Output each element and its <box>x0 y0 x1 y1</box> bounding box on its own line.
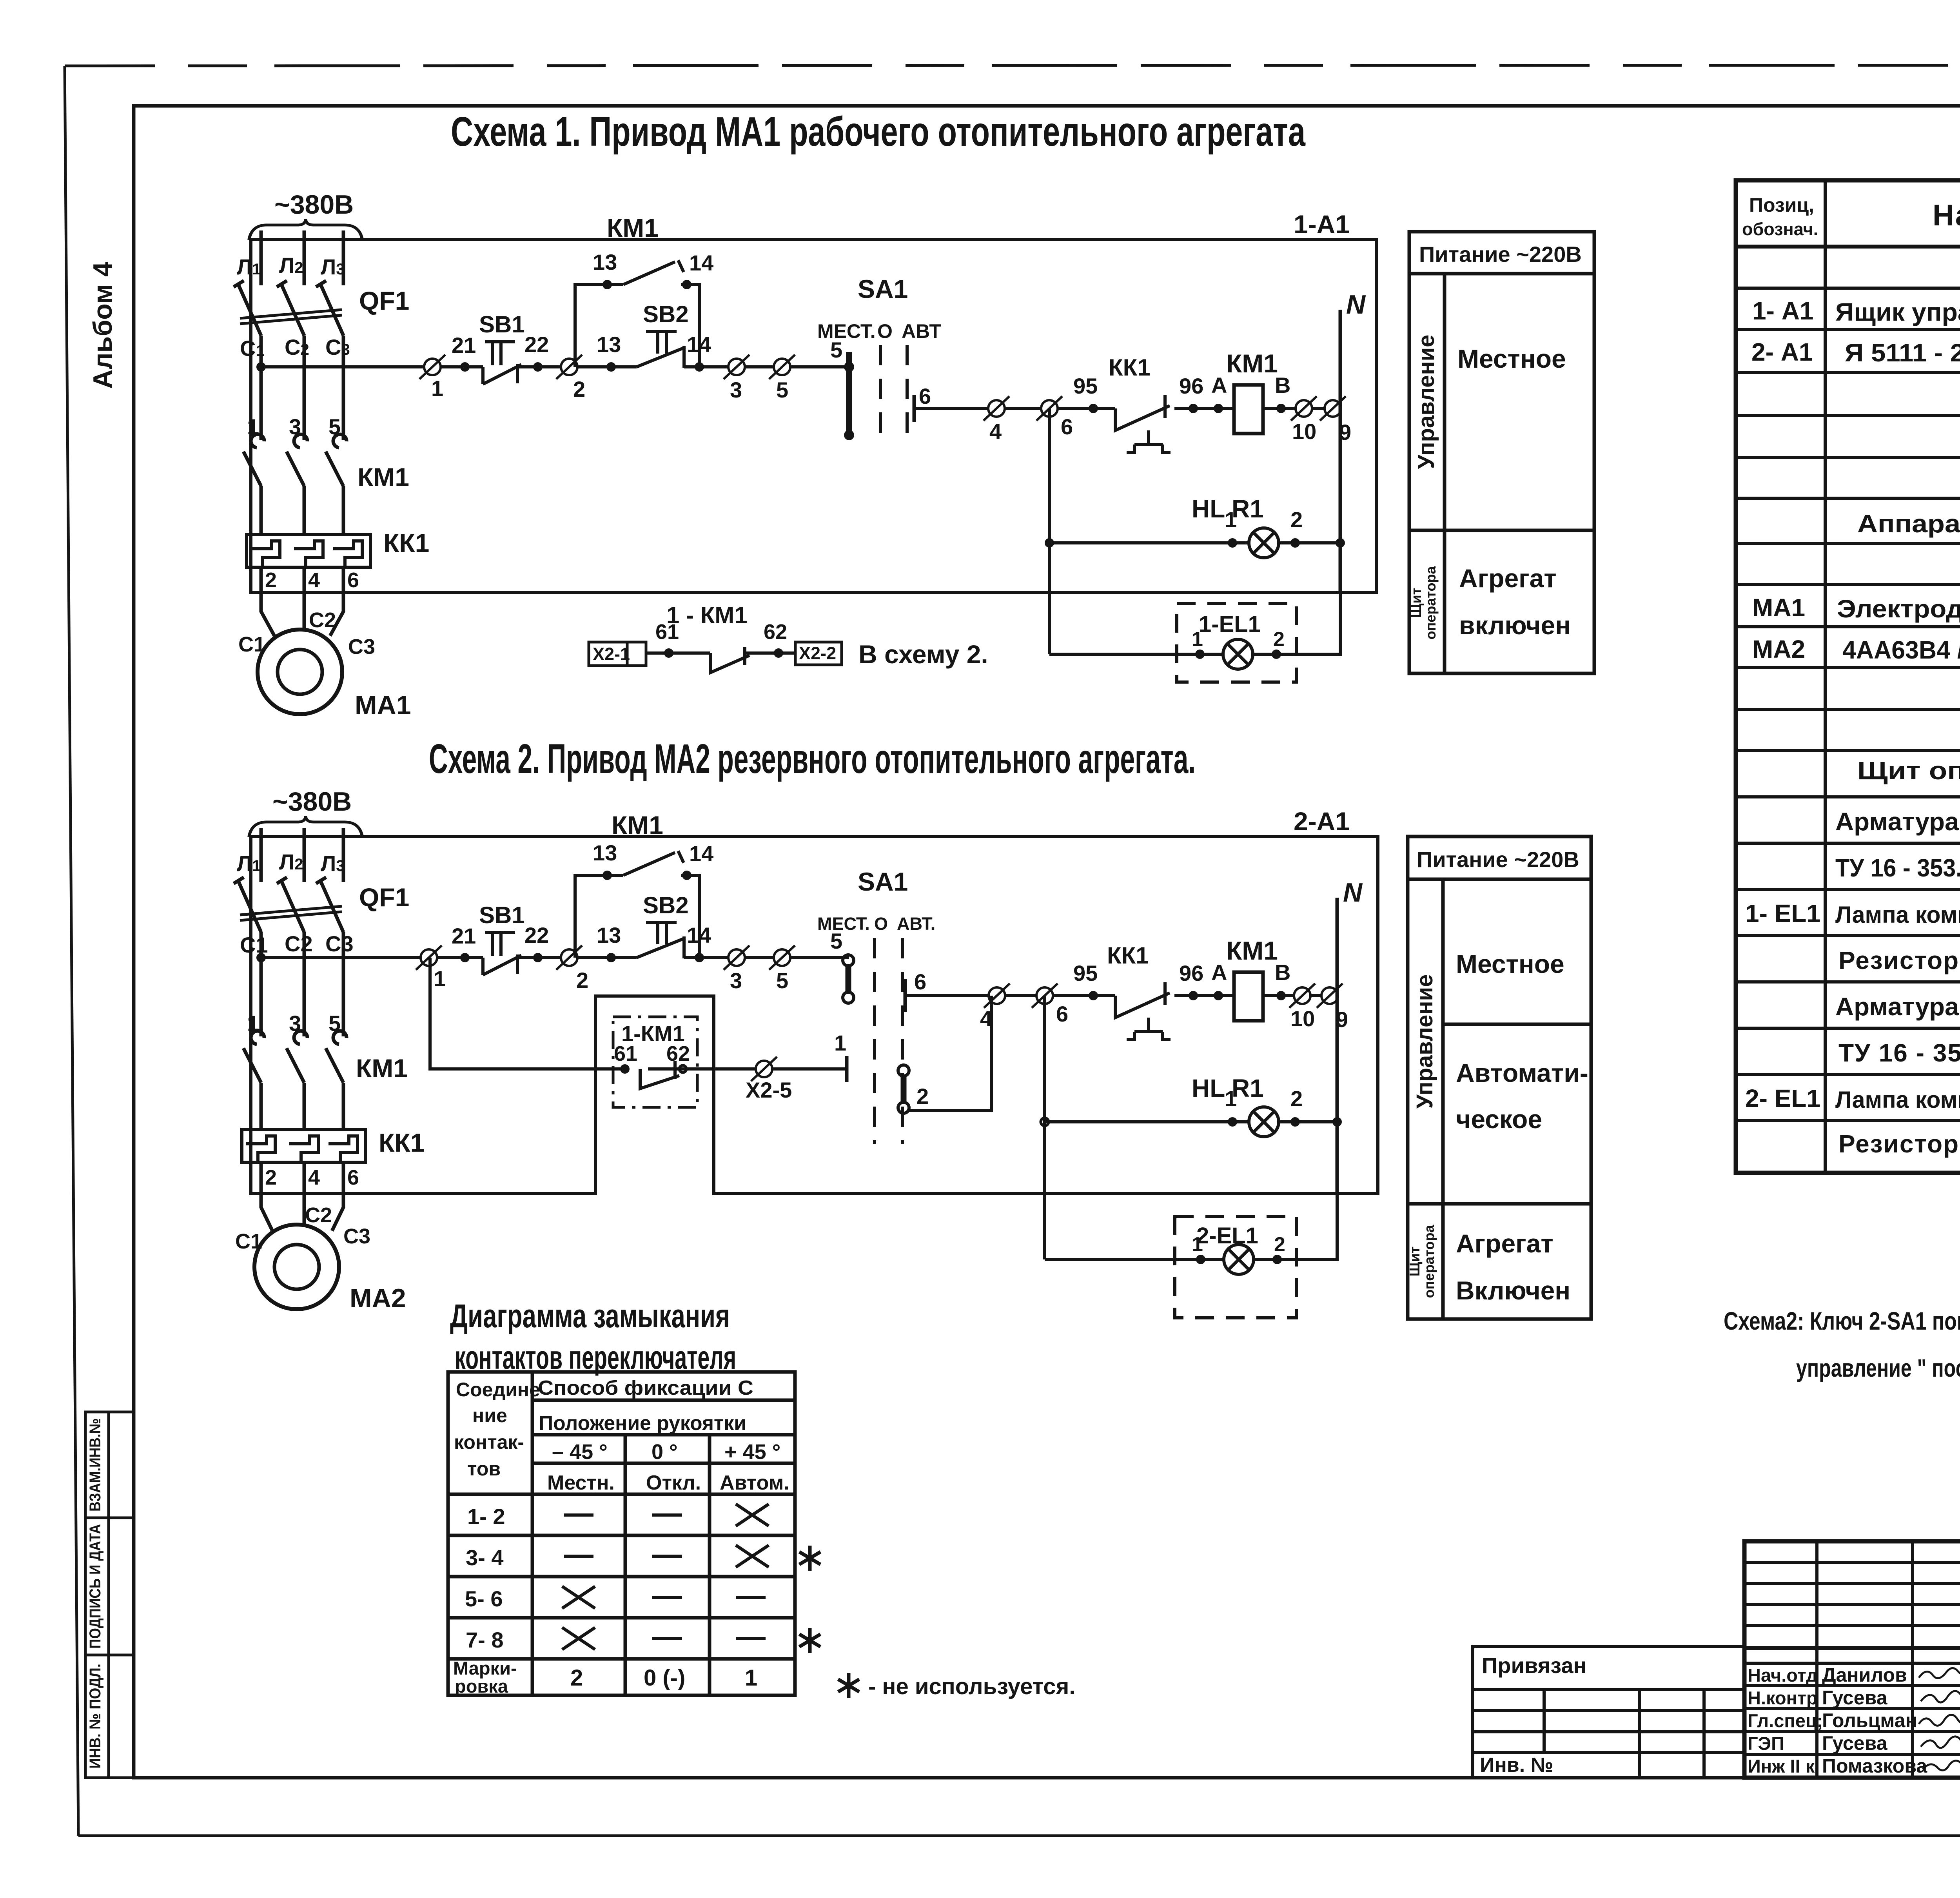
svg-text:ПОДПИСЬ И ДАТА: ПОДПИСЬ И ДАТА <box>87 1524 104 1649</box>
lamp 2-EL1 <box>1224 1245 1254 1274</box>
phase wires to KK1 <box>261 486 343 534</box>
signal lamp HLR1 <box>1249 528 1279 558</box>
svg-text:14: 14 <box>689 250 713 275</box>
SA1 contact 2 (AVT) <box>898 1065 909 1076</box>
terminal box X2-2 <box>795 642 842 665</box>
380V brace schema2 <box>249 816 362 837</box>
signal lamp HLR1 s2 <box>1249 1107 1279 1137</box>
switch SA1 s2 contact 5 <box>843 955 854 966</box>
feed table schema2 <box>1408 836 1591 1319</box>
svg-text:ческое: ческое <box>1456 1105 1542 1134</box>
svg-text:6: 6 <box>914 969 926 994</box>
svg-text:QF1: QF1 <box>359 883 409 912</box>
main control wire s2 <box>261 956 849 959</box>
svg-text:22: 22 <box>524 923 549 947</box>
svg-text:С2: С2 <box>309 608 336 632</box>
svg-text:Инж II к: Инж II к <box>1748 1756 1815 1776</box>
phase line L2 <box>303 230 306 285</box>
contactor KM1 pole 1 <box>243 434 264 486</box>
KM1 aux blade s2 <box>623 851 684 875</box>
svg-text:Нач.отд: Нач.отд <box>1748 1665 1818 1686</box>
svg-text:Х2-5: Х2-5 <box>746 1078 792 1102</box>
thermal contact KK1 aux s2 <box>1115 982 1171 1040</box>
svg-text:2: 2 <box>1274 1233 1285 1256</box>
node 2 lamp s2 <box>1290 1117 1300 1127</box>
phase wires s2 <box>261 932 343 1036</box>
svg-text:0 (-): 0 (-) <box>644 1665 685 1691</box>
svg-text:С3: С3 <box>343 1225 370 1248</box>
svg-text:6: 6 <box>347 568 359 592</box>
node 61 s2 <box>620 1064 630 1074</box>
marker circuit point 1 <box>419 355 445 379</box>
asterisk row 3-4 <box>799 1546 820 1571</box>
svg-text:2-ЕL1: 2-ЕL1 <box>1196 1223 1258 1248</box>
svg-text:2: 2 <box>573 377 585 401</box>
svg-text:КМ1: КМ1 <box>607 213 659 242</box>
contactor KM1 pole 3 <box>326 434 347 486</box>
SA1 terminal 6 s2 <box>904 979 907 1012</box>
svg-text:62: 62 <box>666 1042 690 1065</box>
svg-text:3: 3 <box>289 1011 301 1036</box>
svg-text:4: 4 <box>989 419 1002 444</box>
marker point 9 s2 <box>1317 983 1343 1008</box>
svg-text:С1: С1 <box>238 633 265 656</box>
svg-text:Автомати-: Автомати- <box>1456 1058 1588 1087</box>
svg-text:управление " после запуска: управление " после запуска рабочего агре… <box>1796 1354 1960 1382</box>
svg-text:Электродвигатель: Электродвигатель <box>1837 595 1960 623</box>
SA1 terminal 6 tick <box>913 395 916 422</box>
svg-text:МА1: МА1 <box>1752 593 1805 622</box>
svg-text:А: А <box>1211 960 1227 985</box>
svg-text:Лампа коммутаторная КМ 24-: Лампа коммутаторная КМ 24-90 <box>1835 902 1960 928</box>
svg-text:включен: включен <box>1459 611 1571 640</box>
marker X2-5 <box>751 1057 777 1081</box>
svg-text:ТУ 16 - 353.582-76 в комплект: ТУ 16 - 353.582-76 в комплекте: <box>1835 854 1960 882</box>
node 1 EL1 s2 <box>1196 1255 1205 1264</box>
svg-text:С3: С3 <box>348 635 375 659</box>
svg-text:~380В: ~380В <box>274 190 354 220</box>
pushbutton SB1 (stop, NC) <box>483 342 521 384</box>
KM1 seal-in branch s2 <box>575 875 699 958</box>
svg-text:Схема 2. Привод МА2 резервног: Схема 2. Привод МА2 резервного отопитель… <box>429 736 1196 782</box>
svg-text:2: 2 <box>576 968 588 993</box>
svg-text:- не используется.: - не используется. <box>868 1674 1076 1699</box>
svg-text:1- ЕL1: 1- ЕL1 <box>1745 899 1820 927</box>
svg-text:21: 21 <box>452 924 476 948</box>
KM1 aux NC contact 61-62 <box>710 647 750 673</box>
svg-text:оператора: оператора <box>1423 566 1439 640</box>
svg-text:Инв. №: Инв. № <box>1480 1754 1553 1776</box>
node 2 lamp <box>1290 538 1300 548</box>
svg-text:Местное: Местное <box>1456 949 1564 978</box>
svg-text:2: 2 <box>265 1166 277 1189</box>
node 13 branch s2 <box>603 871 612 880</box>
breaker QF1 s2 pole 1 <box>234 877 261 932</box>
svg-text:1: 1 <box>247 414 259 439</box>
svg-text:С2: С2 <box>285 931 313 956</box>
svg-text:2: 2 <box>916 1084 929 1109</box>
svg-text:КМ1: КМ1 <box>612 811 663 840</box>
svg-text:Местн.: Местн. <box>547 1472 615 1494</box>
svg-text:С1: С1 <box>240 933 268 957</box>
node 22 s2 <box>533 953 543 962</box>
svg-text:13: 13 <box>593 250 617 274</box>
wire to lamp 2-EL1 <box>1045 1194 1337 1259</box>
node C1 tap s2 <box>256 953 266 962</box>
svg-text:Гольцман: Гольцман <box>1822 1709 1917 1731</box>
svg-text:4: 4 <box>308 1166 320 1189</box>
svg-text:С1: С1 <box>235 1230 262 1253</box>
interlock drop from point 1 s2 <box>430 958 847 1069</box>
svg-text:КК1: КК1 <box>1107 942 1149 969</box>
contactor KM1 s2 pole 1 <box>243 1031 264 1083</box>
junction vertical from point 6 <box>1048 408 1051 654</box>
svg-text:Гл.спец;: Гл.спец; <box>1748 1710 1823 1731</box>
svg-text:21: 21 <box>452 333 476 357</box>
svg-text:Способ фиксации С: Способ фиксации С <box>538 1377 753 1399</box>
neutral wire N schema1 <box>1339 310 1342 592</box>
node A <box>1214 404 1223 413</box>
svg-text:Помазкова: Помазкова <box>1822 1755 1927 1777</box>
node 14 main <box>695 362 704 372</box>
interlock NC contact 61-62 s2 <box>640 1061 679 1089</box>
svg-text:5- 6: 5- 6 <box>465 1586 503 1611</box>
marker point 3 s2 <box>724 945 750 970</box>
svg-text:В схему 2.: В схему 2. <box>858 640 988 669</box>
svg-text:Арматура АМЕ 32122142 ~220В: Арматура АМЕ 32122142 ~220В <box>1835 993 1960 1021</box>
svg-text:SА1: SА1 <box>858 867 908 896</box>
neutral wire N s2 <box>1336 898 1339 1194</box>
svg-text:контак-: контак- <box>454 1431 524 1453</box>
svg-text:1-А1: 1-А1 <box>1294 210 1350 239</box>
thermal contact KK1 aux NC <box>1115 395 1171 452</box>
node 13 branch <box>603 280 612 289</box>
svg-text:ИНВ. № ПОДЛ.: ИНВ. № ПОДЛ. <box>87 1664 104 1769</box>
svg-text:ТУ 16 - 353. 582-76 в комплек: ТУ 16 - 353. 582-76 в комплекте: <box>1838 1039 1960 1067</box>
svg-text:КК1: КК1 <box>1109 354 1151 381</box>
breaker QF1 pole 1 blade <box>234 281 261 336</box>
marker point 4 s2 <box>984 983 1010 1008</box>
node lamp branch left <box>1045 538 1054 548</box>
svg-text:В: В <box>1275 373 1290 397</box>
SA1 dashed line 2 s2 <box>901 938 904 1144</box>
svg-text:Я 5111 - 2274 УХЛ4: Я 5111 - 2274 УХЛ4 <box>1845 339 1960 367</box>
svg-text:96: 96 <box>1179 961 1203 985</box>
svg-text:Х2-2: Х2-2 <box>799 643 836 663</box>
SA1 position dashed line 2 <box>906 345 909 438</box>
svg-text:1: 1 <box>834 1031 846 1055</box>
feed table schema1 <box>1409 232 1594 673</box>
phase line L3 <box>342 230 345 285</box>
svg-text:2- ЕL1: 2- ЕL1 <box>1745 1084 1820 1112</box>
svg-text:Включен: Включен <box>1456 1276 1570 1305</box>
svg-text:2: 2 <box>1290 507 1303 532</box>
node 95 s2 <box>1089 991 1098 1000</box>
svg-text:14: 14 <box>689 841 713 866</box>
svg-text:10: 10 <box>1292 419 1316 444</box>
privyazan table <box>1473 1647 1744 1778</box>
marker point 5 s2 <box>769 945 795 970</box>
svg-text:SВ2: SВ2 <box>643 301 689 327</box>
KK1 stubs s2 <box>261 1162 343 1194</box>
node SA1 terminal 5 <box>844 362 854 372</box>
svg-text:5: 5 <box>776 377 788 402</box>
KK1 output stubs <box>261 567 343 592</box>
pushbutton SB1 s2 <box>483 933 521 975</box>
phase wire C2 segment <box>303 336 306 440</box>
svg-text:SВ1: SВ1 <box>479 902 525 928</box>
svg-text:2: 2 <box>570 1665 583 1691</box>
svg-text:Щит: Щит <box>1408 588 1424 618</box>
svg-text:13: 13 <box>597 923 621 947</box>
svg-text:С3: С3 <box>325 931 354 956</box>
interlock wire to schema 2 <box>646 651 795 655</box>
breaker QF1 pole 3 blade <box>316 281 343 336</box>
svg-text:4АА63В4 N=0,37 кВт ; ~380В: 4АА63В4 N=0,37 кВт ; ~380В <box>1842 636 1960 664</box>
svg-text:Н.контр: Н.контр <box>1748 1688 1818 1708</box>
svg-text:6: 6 <box>1056 1002 1068 1026</box>
KM1 aux contact blade <box>623 260 684 285</box>
junction vertical from point 6 s2 <box>1043 996 1046 1259</box>
svg-text:О: О <box>874 914 888 934</box>
svg-text:НL R1: НL R1 <box>1192 495 1264 523</box>
node C1 tap <box>256 362 266 372</box>
svg-text:13: 13 <box>597 332 621 357</box>
svg-text:ВЗАМ.ИНВ.№: ВЗАМ.ИНВ.№ <box>87 1418 104 1512</box>
phase line L2 s2 <box>303 828 306 882</box>
node 96 <box>1189 404 1198 413</box>
svg-text:N: N <box>1343 878 1363 907</box>
svg-text:Резистор: Резистор <box>1838 946 1959 974</box>
svg-text:Диаграмма замыкания: Диаграмма замыкания <box>450 1297 730 1334</box>
terminal box X2-1 <box>589 642 646 666</box>
svg-text:6: 6 <box>919 384 931 408</box>
svg-text:КМ1: КМ1 <box>1226 349 1278 378</box>
svg-text:1: 1 <box>431 376 443 401</box>
svg-text:62: 62 <box>764 620 787 644</box>
svg-text:2: 2 <box>1290 1086 1303 1111</box>
svg-text:Соедине: Соедине <box>456 1379 540 1401</box>
phase line L1 s2 <box>260 828 263 882</box>
svg-text:КК1: КК1 <box>383 528 429 557</box>
node 2 EL1 <box>1272 650 1281 659</box>
svg-text:Гусева: Гусева <box>1822 1732 1888 1754</box>
node 62 <box>774 648 783 658</box>
svg-text:Местное: Местное <box>1457 344 1566 373</box>
svg-text:КМ1: КМ1 <box>358 463 409 492</box>
node lamp branch s2 <box>1041 1118 1049 1126</box>
svg-text:Резистор: Резистор <box>1838 1130 1959 1158</box>
svg-text:3: 3 <box>289 414 301 439</box>
KM1 seal-in branch riser <box>575 285 699 367</box>
svg-text:3- 4: 3- 4 <box>466 1545 504 1570</box>
marker circuit point 10 <box>1291 396 1317 421</box>
svg-text:Наименование: Наименование <box>1933 199 1960 232</box>
node 96 s2 <box>1189 991 1198 1000</box>
svg-text:~380В: ~380В <box>272 787 352 817</box>
svg-text:22: 22 <box>524 332 549 357</box>
marker circuit point 3 <box>724 355 750 379</box>
svg-text:95: 95 <box>1073 374 1098 398</box>
svg-text:Схема 1. Привод МА1 рабочего: Схема 1. Привод МА1 рабочего отопительно… <box>451 109 1306 155</box>
svg-text:3: 3 <box>730 968 742 993</box>
node 13 s2 <box>606 953 616 962</box>
phase line L1 <box>260 230 263 285</box>
phase wire C1 segment <box>260 336 263 440</box>
motor MA1 <box>258 630 342 714</box>
motor leads <box>261 592 343 636</box>
node 61 <box>664 648 673 658</box>
svg-text:обознач.: обознач. <box>1742 219 1818 239</box>
marker point 2 s2 <box>556 945 582 970</box>
svg-text:0 °: 0 ° <box>652 1440 678 1464</box>
node 13 main <box>606 362 616 372</box>
svg-text:Откл.: Откл. <box>646 1472 701 1494</box>
svg-text:1: 1 <box>745 1665 757 1691</box>
node B <box>1276 404 1286 413</box>
row 7-8 cells <box>562 1628 766 1649</box>
outer sheet border left <box>65 66 78 1836</box>
svg-text:МА2: МА2 <box>1752 635 1805 663</box>
svg-text:10: 10 <box>1290 1006 1315 1031</box>
svg-text:+ 45 °: + 45 ° <box>724 1440 780 1464</box>
thermal relay KK1 block <box>247 534 370 567</box>
svg-text:1: 1 <box>1192 1233 1203 1256</box>
motor leads s2 <box>261 1194 343 1231</box>
svg-text:1: 1 <box>1192 628 1203 651</box>
main control wire schema1 <box>261 365 849 368</box>
svg-text:Агрегат: Агрегат <box>1459 564 1557 593</box>
enclosure box 2-A1 with notch <box>251 836 1378 1194</box>
outer sheet border top (dashed) <box>65 65 1960 66</box>
svg-text:95: 95 <box>1073 961 1098 985</box>
svg-text:4: 4 <box>308 568 320 592</box>
phase wires to KK1 s2 <box>261 1083 343 1129</box>
note asterisk meaning <box>838 1673 859 1698</box>
control wire after SA1 <box>914 407 1340 410</box>
svg-text:Данилов: Данилов <box>1822 1664 1907 1686</box>
svg-text:ГЭП: ГЭП <box>1748 1733 1784 1754</box>
signatures <box>1919 1666 1960 1770</box>
node 14 branch <box>682 280 691 289</box>
svg-text:Позиц,: Позиц, <box>1749 194 1814 216</box>
phase line L3 s2 <box>342 828 345 882</box>
svg-text:Гусева: Гусева <box>1822 1687 1888 1709</box>
node 14 s2 <box>695 953 704 962</box>
dash-dot box 1-KM1 s2 <box>613 1017 697 1107</box>
svg-text:ровка: ровка <box>455 1676 508 1697</box>
svg-text:– 45 °: – 45 ° <box>552 1440 608 1464</box>
contactor KM1 s2 pole 3 <box>326 1031 347 1083</box>
outer sheet border bottom <box>78 1834 1960 1837</box>
svg-text:Управление: Управление <box>1414 335 1439 469</box>
marker circuit point 4 <box>984 396 1009 421</box>
svg-text:3: 3 <box>730 377 742 402</box>
svg-text:НL R1: НL R1 <box>1192 1074 1264 1102</box>
svg-text:1- 2: 1- 2 <box>467 1504 505 1529</box>
svg-text:Агрегат: Агрегат <box>1456 1229 1553 1258</box>
row 3-4 cells <box>564 1545 769 1567</box>
svg-text:Лампа коммутаторная КМ 24-: Лампа коммутаторная КМ 24-90 <box>1835 1087 1960 1113</box>
svg-text:Щит оператора: Щит оператора <box>1857 757 1960 785</box>
dashed box 1-EL1 <box>1177 604 1296 682</box>
svg-text:оператора: оператора <box>1421 1225 1437 1298</box>
node 95 <box>1089 404 1098 413</box>
contactor KM1 pole 2 <box>287 434 307 486</box>
svg-text:1 - КМ1: 1 - КМ1 <box>666 602 748 628</box>
svg-text:Альбом 4: Альбом 4 <box>88 262 118 389</box>
svg-text:О: О <box>877 320 893 342</box>
svg-text:А: А <box>1211 373 1227 397</box>
marker circuit point 6 <box>1036 396 1062 421</box>
node 14 branch s2 <box>682 871 691 880</box>
dashed box 2-EL1 <box>1175 1217 1297 1318</box>
node 1 lamp <box>1228 538 1237 548</box>
svg-text:SВ2: SВ2 <box>643 892 689 918</box>
svg-text:Питание ~220В: Питание ~220В <box>1417 847 1579 872</box>
svg-text:5: 5 <box>328 1011 341 1036</box>
svg-text:Арматура АМЕ 32322142 ~220В: Арматура АМЕ 32322142 ~220В <box>1835 807 1960 836</box>
marker circuit point 2 <box>556 355 582 379</box>
svg-text:2-А1: 2-А1 <box>1294 807 1350 836</box>
marker point 6 s2 <box>1032 983 1058 1008</box>
breaker QF1 trip bar <box>240 310 342 324</box>
left margin strip cells <box>85 1412 134 1778</box>
row 1-2 cells <box>564 1504 769 1526</box>
enclosure box 1-A1 <box>251 240 1377 592</box>
breaker QF1 pole 2 blade <box>277 281 304 336</box>
marker circuit point 9 <box>1320 396 1346 421</box>
svg-text:1-ЕL1: 1-ЕL1 <box>1199 611 1261 637</box>
phase wire C3 segment <box>342 336 345 440</box>
svg-text:Питание ~220В: Питание ~220В <box>1419 242 1582 267</box>
marker circuit point 5 <box>769 355 795 379</box>
svg-text:Ящик управления: Ящик управления <box>1835 298 1960 326</box>
contactor coil KM1 s2 <box>1234 972 1263 1021</box>
svg-text:5: 5 <box>776 968 788 993</box>
svg-text:Положение рукоятки: Положение рукоятки <box>539 1412 746 1435</box>
svg-text:1: 1 <box>434 966 446 991</box>
contact table grid <box>448 1372 795 1695</box>
wire from contact 2 up to control line <box>908 996 991 1110</box>
SA1 dashed line 1 s2 <box>873 938 876 1144</box>
marker point 1 s2 <box>416 945 442 970</box>
svg-text:ние: ние <box>472 1404 507 1426</box>
lamp branch wire s2 <box>1045 1120 1337 1123</box>
svg-text:13: 13 <box>593 840 617 865</box>
node 21 <box>460 362 470 372</box>
380V brace <box>249 219 362 240</box>
node 22 <box>533 362 543 372</box>
svg-text:КМ1: КМ1 <box>356 1054 408 1083</box>
svg-text:тов: тов <box>467 1458 501 1480</box>
svg-text:Автом.: Автом. <box>720 1472 789 1494</box>
lamp branch wire HLR1 <box>1049 541 1340 544</box>
node N lamp junction s2 <box>1332 1117 1342 1127</box>
pushbutton SB2 s2 <box>637 922 685 958</box>
svg-text:Управление: Управление <box>1412 974 1437 1109</box>
svg-text:1- А1: 1- А1 <box>1752 297 1814 325</box>
svg-text:SА1: SА1 <box>858 274 908 303</box>
svg-text:В: В <box>1275 960 1290 985</box>
svg-text:С2: С2 <box>305 1203 332 1227</box>
pushbutton SB2 (start, NO) <box>637 332 685 368</box>
svg-text:Схема2: Ключ 2-SА1 поверну: Схема2: Ключ 2-SА1 повернуть в положение… <box>1724 1307 1960 1335</box>
lamp 1-EL1 <box>1223 639 1253 669</box>
svg-text:МЕСТ.: МЕСТ. <box>817 320 876 342</box>
control wire after SA1 s2 <box>905 994 1337 997</box>
svg-text:АВТ: АВТ <box>902 320 941 342</box>
